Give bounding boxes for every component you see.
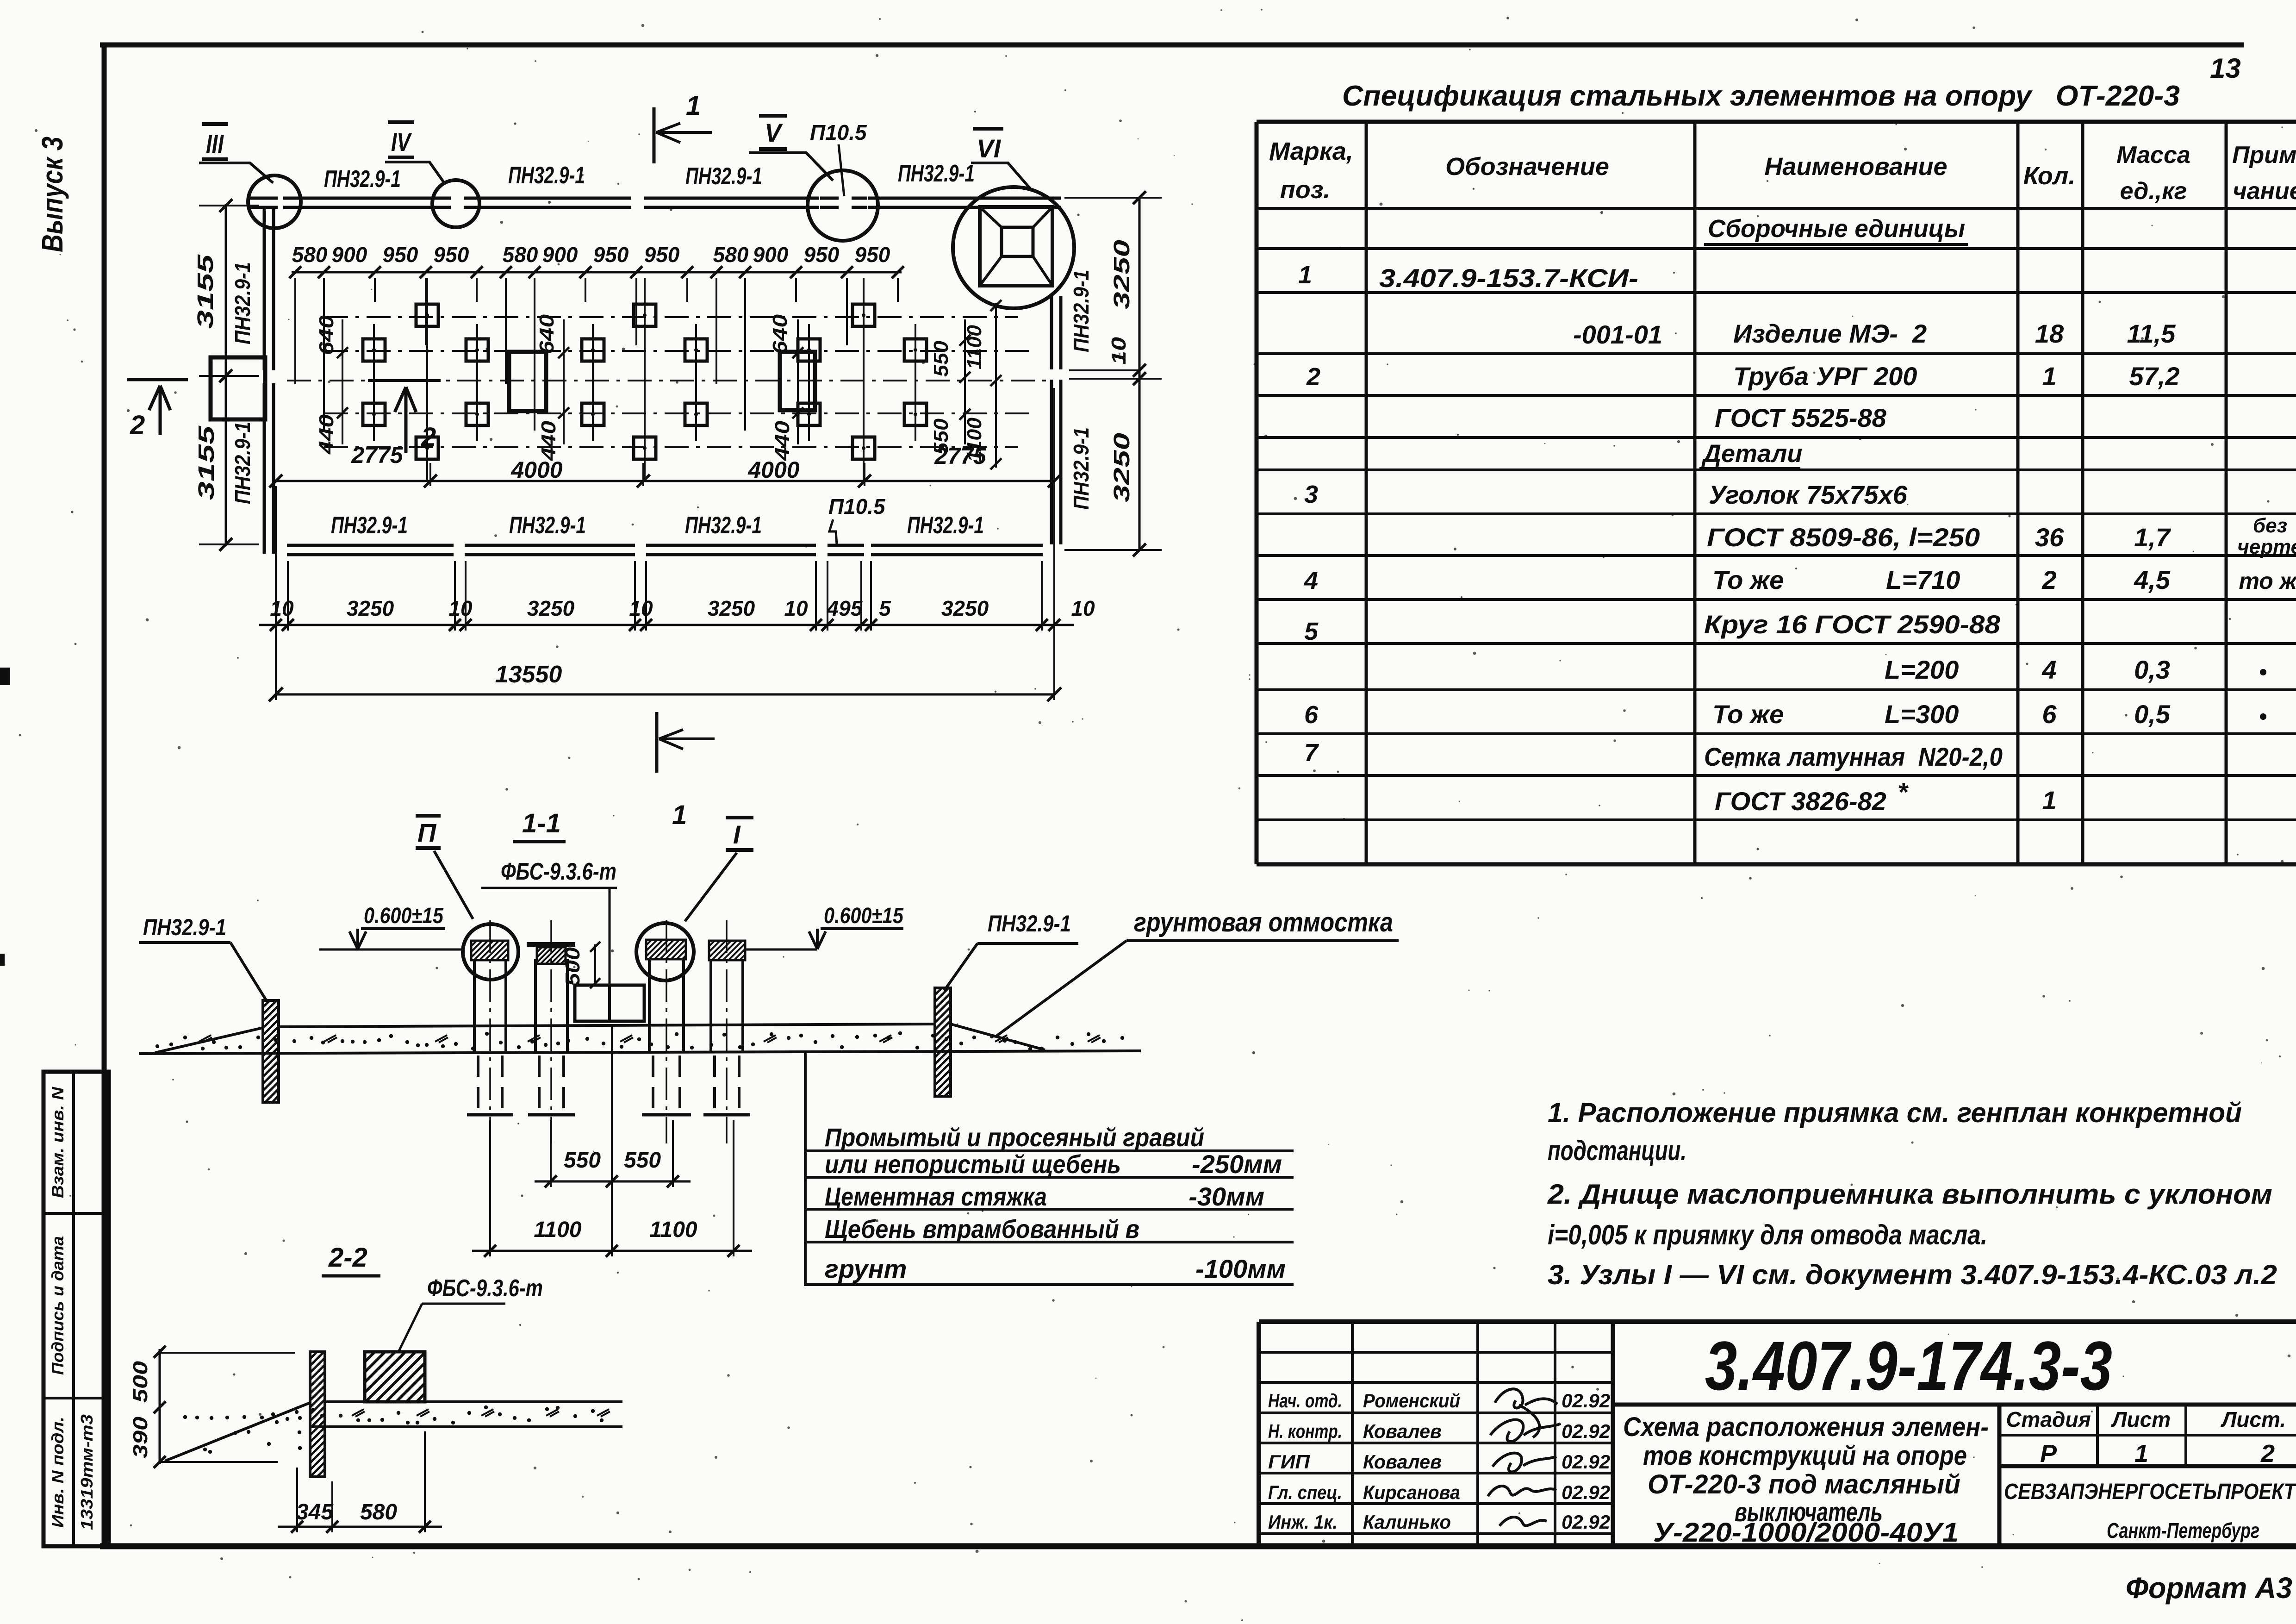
svg-text:440: 440 (315, 414, 338, 455)
svg-text:440: 440 (771, 420, 794, 461)
section 2-2: sheet pile post hatched (185, 1352, 574, 1477)
plan: anchor squares row B upper (363, 339, 385, 361)
svg-text:580: 580 (360, 1500, 397, 1524)
svg-text:ПН32.9-1: ПН32.9-1 (907, 512, 984, 539)
svg-text:10: 10 (784, 596, 808, 620)
svg-text:550: 550 (624, 1148, 661, 1173)
svg-text:1: 1 (686, 91, 701, 121)
svg-text:Стадия: Стадия (2006, 1407, 2091, 1431)
section 1-1: ground top line (279, 1024, 935, 1027)
plan: right wall upper segment (1050, 296, 1053, 369)
section 1-1: gravel dots in ground band (156, 1031, 1124, 1051)
svg-text:1: 1 (672, 800, 687, 830)
section 1-1: column C axis line (666, 920, 667, 1143)
svg-text:*: * (1898, 777, 1909, 806)
svg-text:то ж: то ж (2239, 568, 2296, 594)
plan: section marker 2 left (127, 378, 188, 381)
title block horizontal lines left grid (1259, 1351, 1613, 1354)
svg-text:36: 36 (2035, 523, 2064, 552)
svg-text:6: 6 (2042, 700, 2057, 729)
svg-text:Инв. N подл.: Инв. N подл. (48, 1417, 67, 1528)
svg-text:1: 1 (1298, 261, 1312, 289)
svg-text:1-1: 1-1 (522, 808, 561, 838)
svg-text:3: 3 (1304, 481, 1318, 508)
svg-text:3250: 3250 (941, 596, 989, 620)
svg-text:2775: 2775 (934, 443, 986, 469)
svg-text:-100мм: -100мм (1195, 1254, 1286, 1283)
svg-text:Щебень втрамбованный в: Щебень втрамбованный в (825, 1214, 1139, 1243)
sidebar stamp divider vertical (72, 1072, 75, 1546)
svg-text:3155: 3155 (194, 425, 219, 500)
plan: anchor squares row C (416, 437, 438, 459)
title block stadia row line (1999, 1434, 2296, 1437)
svg-text:Наименование: Наименование (1764, 153, 1947, 181)
svg-text:10: 10 (629, 596, 653, 620)
svg-text:ПН32.9-1: ПН32.9-1 (508, 162, 585, 189)
svg-text:Детали: Детали (1701, 440, 1802, 468)
plan: right wall lower segment (1050, 380, 1053, 544)
svg-text:Подпись и дата: Подпись и дата (48, 1236, 67, 1375)
svg-text:5: 5 (879, 596, 891, 620)
svg-text:3155: 3155 (193, 254, 218, 329)
sidebar stamp box (44, 1072, 109, 1546)
svg-text:10: 10 (270, 596, 294, 620)
plan: equipment block 1 (211, 357, 265, 419)
svg-text:Прим.: Прим. (2232, 142, 2296, 169)
svg-text:Круг 16 ГОСТ 2590-88: Круг 16 ГОСТ 2590-88 (1704, 610, 2001, 639)
plan: node VI pyramid diagonals (980, 207, 1002, 227)
svg-text:грунтовая отмостка: грунтовая отмостка (1134, 907, 1393, 937)
svg-text:3250: 3250 (347, 596, 394, 620)
plan: section marker 1 bottom (655, 712, 659, 773)
plan: center line row B lower (324, 412, 1037, 414)
svg-text:Сборочные единицы: Сборочные единицы (1708, 215, 1965, 243)
section 2-2: gravel dots (183, 1405, 604, 1454)
section 1-1: foundation column C above ground (648, 959, 651, 1052)
svg-text:3250: 3250 (708, 596, 755, 620)
svg-text:3.407.9-153.7-КСИ-: 3.407.9-153.7-КСИ- (1379, 263, 1638, 293)
material list left border (804, 1052, 807, 1286)
svg-text:поз.: поз. (1280, 176, 1331, 204)
svg-text:10: 10 (1071, 596, 1095, 620)
plan: vertical ties between B squares (373, 324, 375, 441)
svg-text:3250: 3250 (1110, 433, 1134, 502)
plan: anchor squares row B lower (363, 403, 385, 425)
plan: top wall segment III-IV (300, 197, 434, 200)
section 2-2: dim 500/390 vertical (159, 1349, 161, 1464)
svg-text:3.407.9-174.3-3: 3.407.9-174.3-3 (1705, 1327, 2112, 1405)
section 1-1: column A axis line (489, 920, 491, 1143)
svg-text:Труба УРГ 200: Труба УРГ 200 (1733, 362, 1917, 391)
svg-text:VI: VI (977, 134, 1001, 163)
svg-text:ГОСТ 8509-86, l=250: ГОСТ 8509-86, l=250 (1707, 523, 1980, 552)
svg-text:1: 1 (2042, 362, 2056, 391)
plan: anchor squares row A (416, 304, 438, 326)
section 1-1: dim 1100 1100 (472, 1250, 752, 1252)
svg-text:Ковалев: Ковалев (1363, 1451, 1442, 1473)
plan: left wall lower segment (263, 383, 266, 554)
svg-text:L=300: L=300 (1885, 700, 1959, 729)
spec table column lines (1365, 122, 1368, 864)
section 1-1: right sheet pile post hatched (827, 988, 1164, 1096)
section 1-1: detail circle I (636, 923, 694, 981)
svg-text:495: 495 (827, 596, 863, 620)
title block doc number cell bottom (1613, 1403, 2296, 1407)
title block signatures squiggles (1495, 1389, 1557, 1408)
svg-text:Лист: Лист (2111, 1407, 2171, 1431)
svg-text:18: 18 (2035, 319, 2064, 348)
section 1-1: column C cap hatched (627, 940, 724, 959)
plan: dimension extension lines (294, 278, 296, 384)
svg-text:Кирсанова: Кирсанова (1363, 1481, 1460, 1503)
svg-text:I: I (733, 820, 741, 849)
svg-text:02.92: 02.92 (1562, 1390, 1610, 1412)
svg-text:2: 2 (1306, 363, 1320, 391)
svg-text:Кол.: Кол. (2023, 162, 2076, 190)
svg-text:500: 500 (561, 947, 584, 986)
svg-text:Инж. 1к.: Инж. 1к. (1268, 1511, 1338, 1533)
sheet frame left border (102, 43, 107, 1546)
svg-text:580: 580 (503, 243, 538, 267)
svg-text:3250: 3250 (1110, 240, 1134, 309)
svg-text:СЕВЗАПЭНЕРГОСЕТЬПРОЕКТ: СЕВЗАПЭНЕРГОСЕТЬПРОЕКТ (2004, 1480, 2296, 1504)
svg-text:Взам. инв. N: Взам. инв. N (48, 1087, 67, 1198)
section 1-1: right embankment slope (951, 1024, 1045, 1050)
section 2-2: slope line (165, 1403, 310, 1461)
svg-text:Р: Р (2040, 1440, 2057, 1468)
section 1-1: left sheet pile post hatched (161, 1000, 478, 1102)
svg-text:950: 950 (383, 243, 418, 267)
svg-text:1100: 1100 (534, 1218, 582, 1242)
svg-text:У-220-1000/2000-40У1: У-220-1000/2000-40У1 (1653, 1518, 1959, 1548)
svg-text:тов конструкций на опоре: тов конструкций на опоре (1643, 1441, 1967, 1471)
svg-text:L=200: L=200 (1885, 655, 1959, 684)
svg-text:1: 1 (2134, 1440, 2148, 1468)
svg-text:-30мм: -30мм (1188, 1182, 1264, 1211)
plan: main axis center line (287, 380, 1046, 381)
svg-text:550: 550 (564, 1148, 601, 1173)
svg-text:Масса: Масса (2116, 142, 2190, 169)
svg-text:0,5: 0,5 (2134, 700, 2171, 729)
plan: node circle VI (953, 187, 1074, 308)
section 1-1: ground bottom line (139, 1051, 1141, 1054)
svg-text:IV: IV (391, 127, 412, 156)
svg-text:Формат А3: Формат А3 (2126, 1571, 2292, 1605)
svg-text:2775: 2775 (351, 442, 403, 468)
svg-text:0.600±15: 0.600±15 (824, 904, 904, 928)
svg-text:4,5: 4,5 (2134, 565, 2171, 594)
plan: top wall segment V-VI (868, 197, 1061, 200)
svg-text:или непористый щебень: или непористый щебень (825, 1149, 1121, 1179)
plan: center line row C (324, 446, 1018, 448)
svg-text:Санкт-Петербург: Санкт-Петербург (2107, 1518, 2259, 1543)
section 1-1: foundation column B below ground dashed (538, 1056, 541, 1115)
svg-text:чание: чание (2233, 178, 2296, 205)
svg-text:13319тм-т3: 13319тм-т3 (77, 1414, 96, 1530)
svg-text:То же: То же (1712, 565, 1784, 594)
svg-text:440: 440 (537, 420, 560, 461)
material list row lines (805, 1149, 1294, 1152)
section 1-1: foundation column D above ground (709, 959, 712, 1052)
title block outer border (1259, 1319, 2296, 1324)
svg-text:5: 5 (1304, 618, 1319, 645)
svg-text:Спецификация стальных элементо: Спецификация стальных элементов на опору… (1342, 80, 2180, 112)
svg-text:900: 900 (332, 243, 367, 267)
svg-text:П10.5: П10.5 (810, 120, 867, 144)
section 2-2: soil ticks (352, 1409, 365, 1417)
sidebar stamp divider row1 (44, 1212, 109, 1215)
svg-text:2. Днище маслоприемника выполн: 2. Днище маслоприемника выполнить с укло… (1547, 1179, 2272, 1210)
plan: top dimension line 580-900-950-950 (292, 271, 902, 274)
svg-text:02.92: 02.92 (1562, 1451, 1610, 1473)
svg-text:1100: 1100 (649, 1218, 697, 1242)
svg-text:подстанции.: подстанции. (1548, 1135, 1686, 1166)
section 1-1: foundation column D below ground dashed (713, 1056, 716, 1115)
svg-text:Цементная стяжка: Цементная стяжка (825, 1182, 1047, 1211)
plan: dim 550 550 column (964, 319, 966, 444)
svg-text:640: 640 (769, 314, 791, 354)
section 1-1: pit step block (575, 985, 644, 1021)
plan: joint dim line 10-3250 chain (259, 624, 1074, 626)
sheet frame bottom border (100, 1543, 2296, 1549)
svg-text:2: 2 (421, 422, 436, 452)
svg-text:ГОСТ 3826-82: ГОСТ 3826-82 (1715, 787, 1886, 816)
svg-text:580: 580 (713, 243, 749, 267)
svg-text:ГОСТ 5525-88: ГОСТ 5525-88 (1715, 403, 1887, 432)
plan: extension verticals to dim (429, 463, 431, 486)
plan: joint extension verticals (287, 561, 289, 631)
section 1-1: foundation column A above ground (473, 959, 476, 1052)
plan: node circle III (248, 175, 301, 228)
svg-text:950: 950 (644, 243, 680, 267)
svg-text:ед.,кг: ед.,кг (2120, 178, 2187, 205)
section 1-1: foundation column B above ground (534, 959, 537, 1052)
plan: top wall segment IV-V left (479, 197, 631, 200)
plan: right dim line 3250/10/3250 (1139, 198, 1141, 550)
svg-text:Уголок 75х75х6: Уголок 75х75х6 (1709, 480, 1908, 509)
svg-text:То же: То же (1712, 700, 1784, 729)
svg-text:580: 580 (292, 243, 328, 267)
svg-text:500: 500 (129, 1361, 152, 1403)
section 2-2: FBS block hatched (315, 1352, 517, 1402)
section 1-1: detail circle P (463, 924, 518, 980)
plan: equipment block 2 (509, 352, 546, 411)
svg-text:4: 4 (2041, 655, 2056, 684)
svg-text:ПН32.9-1: ПН32.9-1 (230, 262, 255, 344)
svg-text:10: 10 (448, 596, 473, 620)
section 1-1: foundation column A below ground dashed (477, 1056, 479, 1115)
plan: equipment block 3 (780, 352, 815, 410)
svg-text:0.600±15: 0.600±15 (364, 904, 444, 928)
plan: node circle IV (432, 180, 479, 227)
plan: dim 1100 1100 column (995, 303, 997, 468)
svg-text:ПН32.9-1: ПН32.9-1 (1069, 427, 1093, 510)
plan: top wall stub in circle IV (433, 197, 451, 200)
svg-text:0,3: 0,3 (2134, 655, 2170, 684)
svg-text:ПН32.9-1: ПН32.9-1 (685, 512, 762, 539)
svg-text:Сетка латунная N20-2,0: Сетка латунная N20-2,0 (1704, 742, 2003, 771)
plan: vertical tie row A to C (426, 278, 428, 481)
plan: section marker 2 inside (368, 379, 441, 382)
section 2-2: dim 345/580 (278, 1526, 442, 1528)
svg-text:3250: 3250 (527, 596, 575, 620)
svg-text:550: 550 (930, 340, 952, 377)
section 1-1: column D cap hatched (690, 941, 781, 960)
svg-text:III: III (206, 129, 224, 158)
svg-text:-250мм: -250мм (1192, 1149, 1282, 1179)
svg-text:950: 950 (434, 243, 469, 267)
svg-text:900: 900 (542, 243, 578, 267)
title block vertical dividers (1351, 1322, 1354, 1546)
plan: section marker 1 top (653, 107, 656, 163)
svg-text:ПН32.9-1: ПН32.9-1 (331, 512, 408, 539)
svg-text:грунт: грунт (825, 1254, 907, 1283)
svg-text:640: 640 (315, 315, 338, 355)
svg-text:ПН32.9-1: ПН32.9-1 (898, 160, 975, 187)
svg-text:1100: 1100 (963, 325, 986, 369)
svg-text:1,7: 1,7 (2134, 523, 2172, 552)
sidebar stamp divider row2 (44, 1397, 109, 1399)
plan: center line row B upper (324, 350, 1037, 352)
svg-text:640: 640 (535, 314, 558, 354)
svg-text:390: 390 (129, 1416, 152, 1458)
svg-text:1. Расположение приямка см. ге: 1. Расположение приямка см. генплан конк… (1548, 1097, 2242, 1128)
plan: top wall segment mid-V (644, 197, 819, 200)
svg-text:i=0,005 к приямку для отвода м: i=0,005 к приямку для отвода масла. (1548, 1219, 1987, 1250)
svg-text:Обозначение: Обозначение (1445, 153, 1609, 181)
plan: bottom wall segment 495 piece (828, 544, 864, 547)
section 1-1: dim 550 550 (535, 1181, 691, 1183)
plan: node VI pyramid detail outer square (980, 207, 1052, 286)
svg-text:-001-01: -001-01 (1573, 320, 1662, 349)
svg-text:2: 2 (2041, 565, 2056, 594)
svg-text:ПН32.9-1: ПН32.9-1 (509, 512, 586, 539)
svg-text:Схема расположения элемен-: Схема расположения элемен- (1623, 1412, 1989, 1442)
svg-text:V: V (765, 118, 783, 147)
plan: bottom wall segment 2 (465, 544, 635, 547)
plan: center line row A (324, 316, 1018, 318)
spec table row lines (1257, 207, 2296, 210)
svg-text:ПН32.9-1: ПН32.9-1 (324, 166, 401, 193)
svg-text:П10.5: П10.5 (828, 494, 886, 518)
sheet frame top border (100, 43, 2244, 48)
section 2-2: ground band (325, 1400, 622, 1403)
svg-text:2-2: 2-2 (328, 1243, 367, 1273)
plan: top wall stub in circle V (820, 197, 839, 200)
section 1-1: column B axis line (550, 920, 552, 1143)
svg-text:Ковалев: Ковалев (1363, 1420, 1442, 1442)
plan: left dim line 3155/3155 (225, 204, 227, 546)
section 1-1: left embankment slope (155, 1028, 263, 1053)
section 1-1: column B flange (527, 942, 575, 947)
svg-text:Н. контр.: Н. контр. (1268, 1420, 1342, 1442)
svg-text:57,2: 57,2 (2129, 362, 2180, 391)
svg-text:ФБС-9.3.6-т: ФБС-9.3.6-т (427, 1275, 543, 1302)
svg-text:Выпуск 3: Выпуск 3 (36, 137, 69, 252)
svg-text:4000: 4000 (747, 457, 799, 483)
svg-text:3. Узлы I — VI см. документ 3.: 3. Узлы I — VI см. документ 3.407.9-153.… (1548, 1259, 2277, 1290)
svg-text:Лист.: Лист. (2221, 1407, 2286, 1431)
svg-text:4: 4 (1304, 567, 1318, 594)
svg-text:Промытый и просеяный гравий: Промытый и просеяный гравий (825, 1123, 1204, 1152)
svg-text:950: 950 (804, 243, 840, 267)
svg-text:Гл. спец.: Гл. спец. (1268, 1481, 1342, 1503)
svg-text:Калинько: Калинько (1363, 1511, 1451, 1533)
scan artifact blob left edge (0, 668, 10, 685)
section 1-1: soil tick marks (199, 1035, 212, 1043)
svg-text:2: 2 (130, 410, 145, 440)
svg-text:ПН32.9-1: ПН32.9-1 (685, 163, 762, 190)
svg-text:345: 345 (296, 1500, 334, 1524)
svg-text:13550: 13550 (495, 661, 562, 688)
section 1-1: column D axis line (726, 920, 728, 1143)
svg-text:Нач. отд.: Нач. отд. (1268, 1390, 1342, 1412)
plan: top wall stub in circle III (250, 197, 278, 200)
svg-text:1: 1 (2042, 786, 2056, 815)
svg-text:ФБС-9.3.6-т: ФБС-9.3.6-т (501, 858, 616, 885)
plan: bottom wall segment 4 (871, 544, 1043, 547)
svg-text:02.92: 02.92 (1562, 1511, 1610, 1533)
svg-text:чертеж: чертеж (2237, 536, 2296, 558)
plan: total dim 13550 (276, 693, 1054, 696)
svg-text:ПН32.9-1: ПН32.9-1 (988, 911, 1071, 937)
section 1-1: foundation column C below ground dashed (652, 1056, 654, 1115)
svg-text:900: 900 (753, 243, 789, 267)
svg-text:L=710: L=710 (1886, 565, 1960, 594)
section 1-1: column A cap hatched (452, 941, 543, 960)
svg-text:4000: 4000 (510, 457, 562, 483)
svg-text:02.92: 02.92 (1562, 1481, 1610, 1503)
svg-text:ПН32.9-1: ПН32.9-1 (1069, 270, 1093, 352)
svg-text:ОТ-220-3 под масляный: ОТ-220-3 под масляный (1648, 1469, 1960, 1499)
spec table outer border (1257, 120, 2296, 124)
plan: node circle V (808, 170, 878, 241)
svg-text:10: 10 (1108, 337, 1130, 365)
svg-text:ГИП: ГИП (1268, 1451, 1310, 1473)
svg-text:6: 6 (1304, 701, 1319, 729)
svg-text:950: 950 (855, 243, 890, 267)
plan: bottom wall segment 3 (646, 544, 816, 547)
plan: node VI pyramid detail inner square (1002, 227, 1033, 256)
svg-text:Марка,: Марка, (1269, 137, 1353, 165)
svg-text:Роменский: Роменский (1363, 1390, 1460, 1412)
svg-text:11,5: 11,5 (2127, 319, 2176, 348)
svg-text:7: 7 (1304, 739, 1319, 767)
svg-text:2: 2 (2260, 1440, 2275, 1468)
plan: dim line 2775-4000-4000-2775 (276, 480, 1054, 482)
plan: left wall upper segment (263, 209, 266, 370)
svg-text:ПН32.9-1: ПН32.9-1 (143, 914, 226, 940)
svg-text:02.92: 02.92 (1562, 1420, 1610, 1442)
svg-text:без: без (2253, 514, 2287, 537)
plan: bottom wall segment 1 (287, 544, 454, 547)
svg-text:П: П (417, 818, 437, 847)
svg-text:13: 13 (2210, 53, 2241, 84)
svg-text:950: 950 (593, 243, 629, 267)
svg-text:Изделие МЭ- 2: Изделие МЭ- 2 (1733, 319, 1927, 348)
svg-text:ПН32.9-1: ПН32.9-1 (230, 422, 255, 504)
